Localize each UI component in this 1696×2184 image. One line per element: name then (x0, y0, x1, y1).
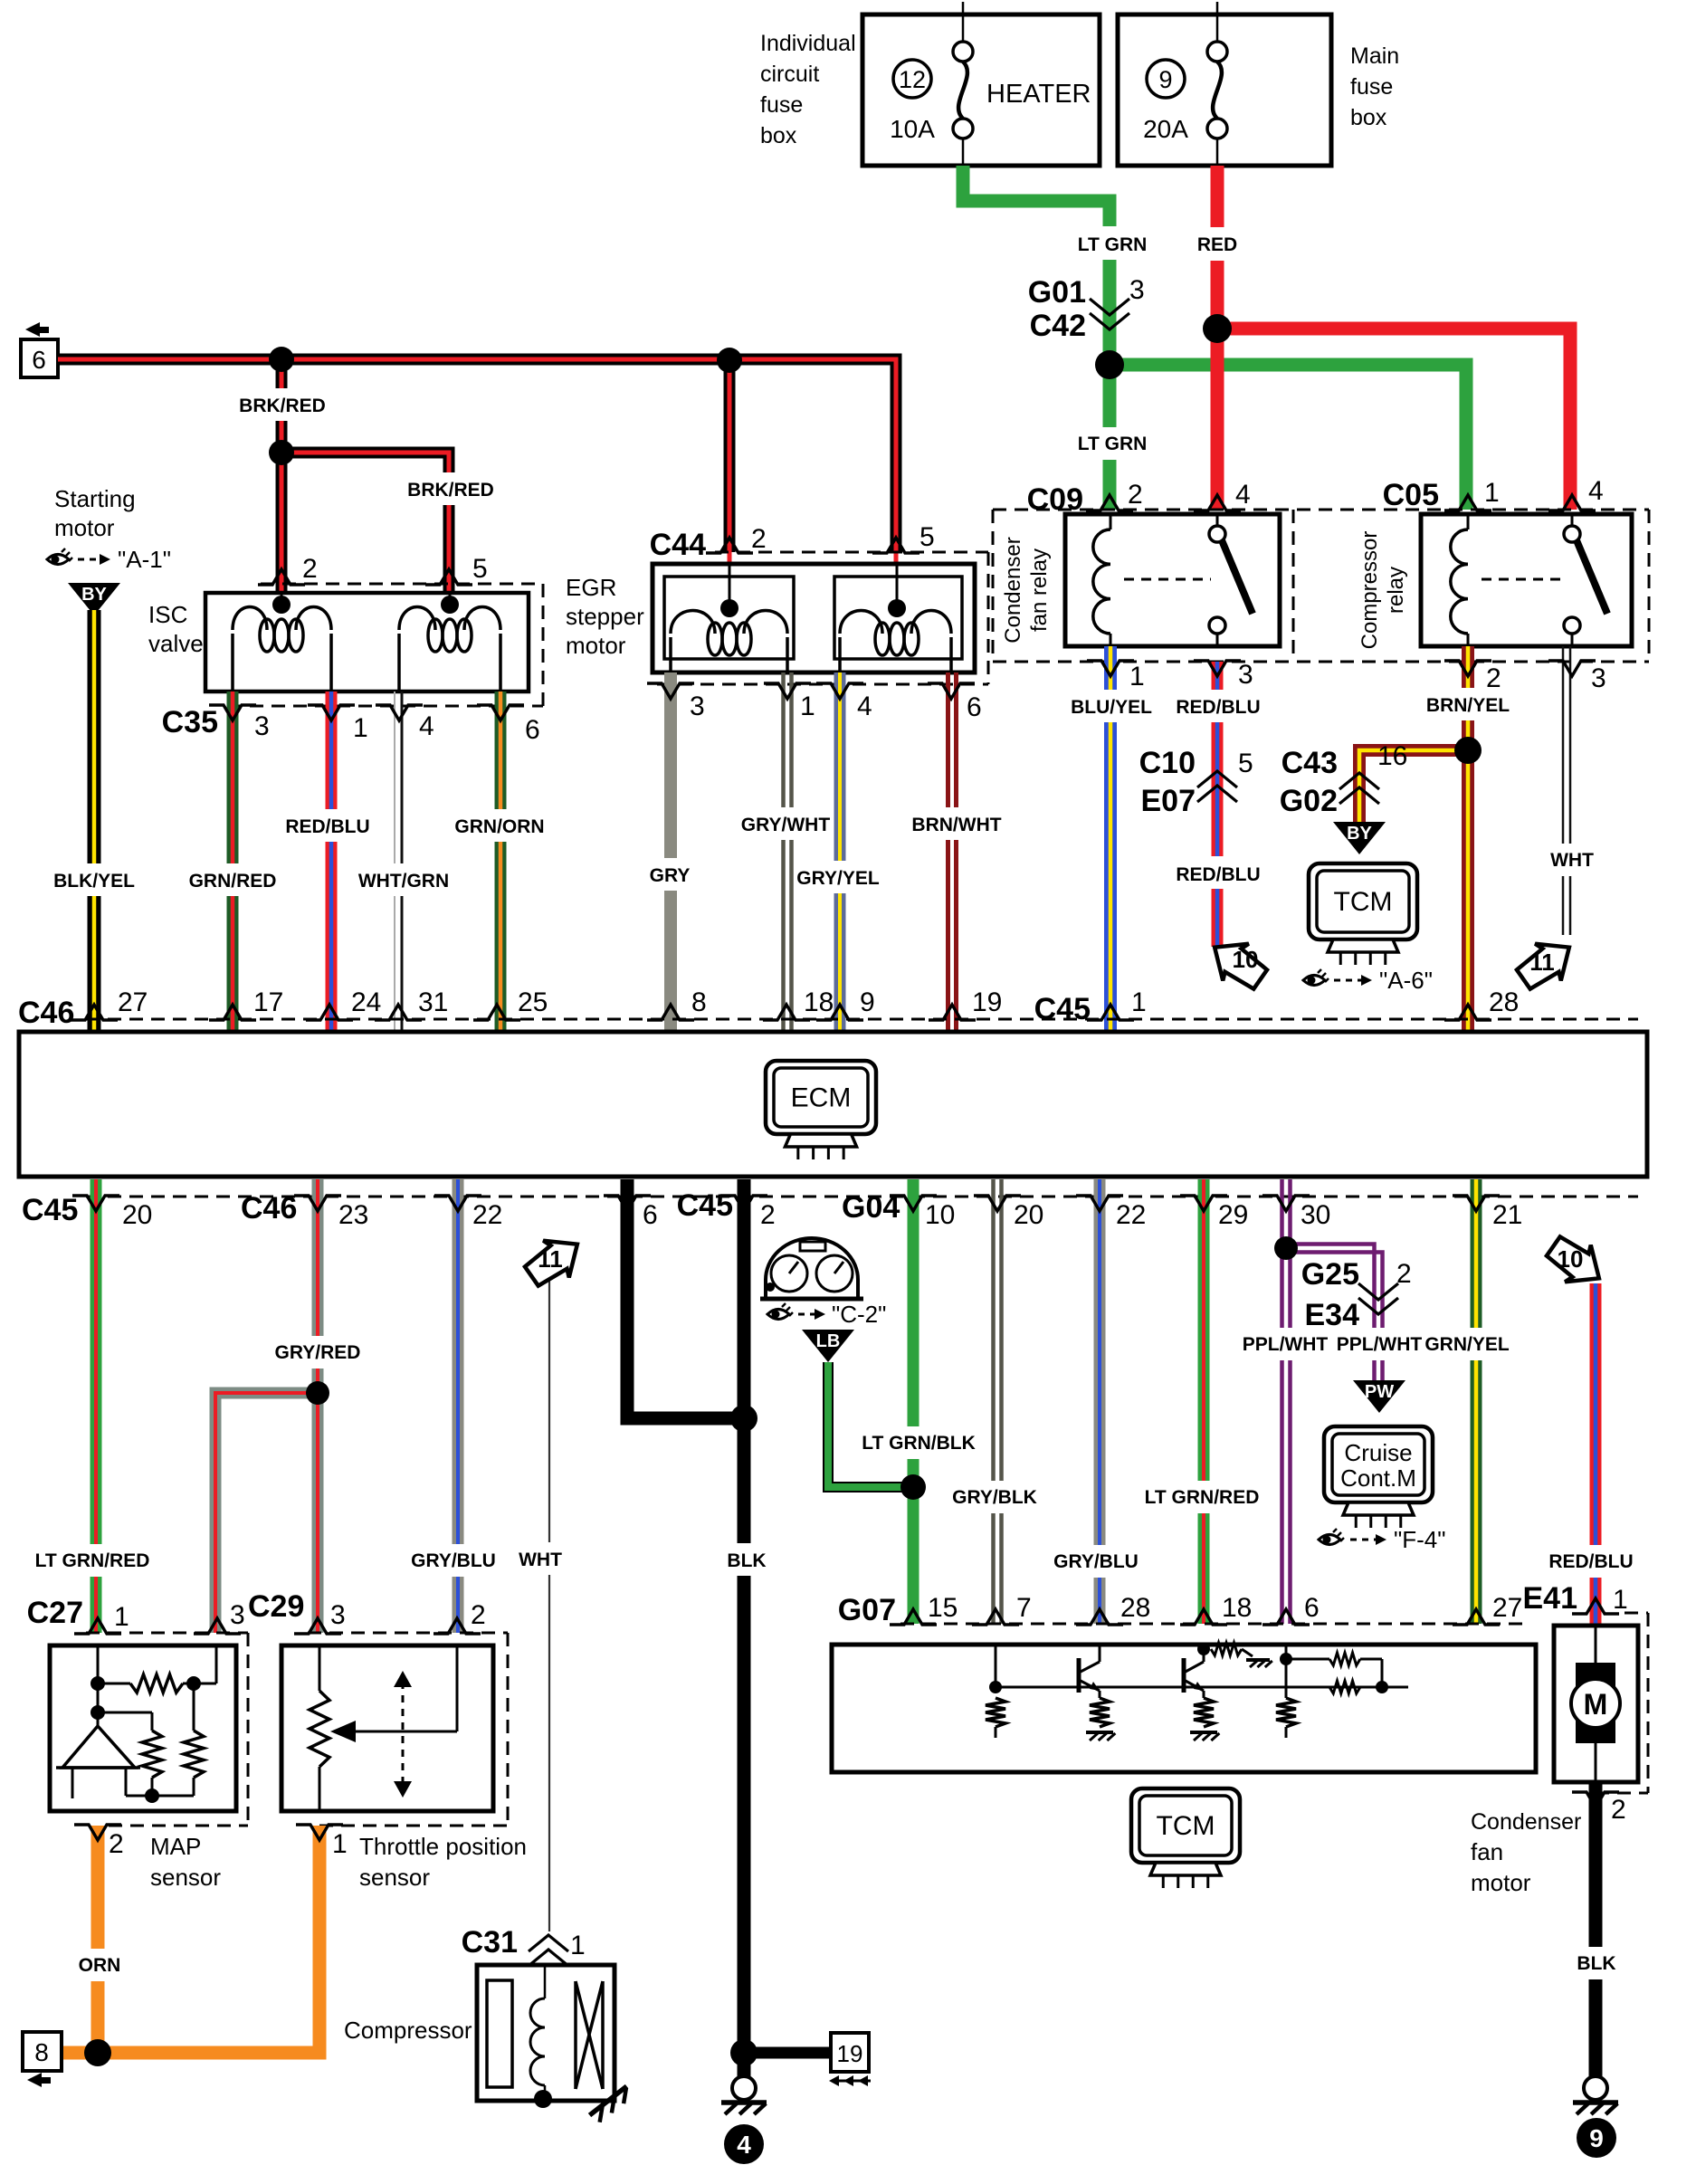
svg-text:box: box (760, 123, 797, 148)
svg-text:GRY/WHT: GRY/WHT (741, 815, 831, 835)
svg-text:17: 17 (253, 987, 283, 1017)
svg-text:9: 9 (860, 987, 875, 1017)
svg-text:E34: E34 (1305, 1298, 1360, 1332)
svg-text:BY: BY (81, 585, 107, 605)
svg-text:G02: G02 (1280, 784, 1338, 818)
svg-text:PPL/WHT: PPL/WHT (1337, 1334, 1423, 1355)
svg-text:4: 4 (1588, 476, 1604, 506)
svg-text:GRY/YEL: GRY/YEL (796, 868, 880, 889)
svg-text:fan: fan (1471, 1838, 1503, 1865)
svg-text:LT GRN/RED: LT GRN/RED (35, 1550, 150, 1571)
svg-text:2: 2 (1611, 1795, 1626, 1825)
svg-text:ISC: ISC (148, 601, 187, 628)
svg-text:12: 12 (899, 66, 926, 93)
svg-text:Cruise: Cruise (1344, 1439, 1412, 1466)
svg-text:C44: C44 (650, 528, 706, 562)
svg-text:GRY: GRY (650, 865, 691, 886)
svg-text:Compressor: Compressor (344, 2017, 472, 2044)
svg-text:1: 1 (1129, 662, 1145, 691)
svg-text:C09: C09 (1027, 482, 1083, 517)
svg-text:PPL/WHT: PPL/WHT (1243, 1334, 1329, 1355)
svg-text:G25: G25 (1301, 1257, 1359, 1292)
svg-text:2: 2 (109, 1829, 124, 1859)
svg-text:motor: motor (1471, 1869, 1531, 1896)
svg-text:motor: motor (566, 632, 626, 659)
svg-text:27: 27 (1492, 1593, 1522, 1623)
svg-text:GRN/ORN: GRN/ORN (454, 816, 544, 837)
svg-text:29: 29 (1218, 1200, 1248, 1230)
svg-text:6: 6 (32, 346, 46, 374)
svg-text:3: 3 (690, 691, 705, 721)
svg-text:G01: G01 (1028, 275, 1086, 310)
svg-text:Cont.M: Cont.M (1340, 1464, 1416, 1492)
svg-text:2: 2 (1128, 480, 1143, 510)
svg-text:BLK/YEL: BLK/YEL (53, 871, 135, 892)
svg-text:RED/BLU: RED/BLU (1548, 1551, 1633, 1572)
svg-text:LT GRN: LT GRN (1078, 234, 1148, 255)
svg-text:5: 5 (1238, 749, 1253, 778)
svg-text:3: 3 (254, 711, 270, 741)
svg-text:28: 28 (1120, 1593, 1150, 1623)
svg-text:4: 4 (857, 691, 872, 721)
svg-text:11: 11 (538, 1245, 563, 1273)
svg-text:C27: C27 (27, 1596, 83, 1630)
svg-text:C46: C46 (241, 1191, 297, 1226)
svg-text:"A-1": "A-1" (118, 546, 171, 573)
svg-text:10: 10 (925, 1200, 955, 1230)
svg-text:20A: 20A (1143, 115, 1188, 143)
svg-text:G07: G07 (838, 1593, 896, 1627)
svg-text:10A: 10A (890, 115, 935, 143)
svg-text:BLK: BLK (727, 1550, 766, 1571)
svg-text:GRY/BLK: GRY/BLK (952, 1487, 1037, 1508)
svg-text:LB: LB (816, 1331, 841, 1351)
svg-text:sensor: sensor (150, 1864, 221, 1891)
svg-text:6: 6 (967, 692, 982, 722)
svg-text:21: 21 (1492, 1200, 1522, 1230)
svg-text:"C-2": "C-2" (832, 1301, 886, 1328)
svg-text:3: 3 (230, 1600, 245, 1630)
svg-text:WHT/GRN: WHT/GRN (358, 871, 449, 892)
svg-text:10: 10 (1233, 946, 1259, 973)
svg-text:stepper: stepper (566, 603, 644, 630)
svg-text:BRK/RED: BRK/RED (407, 480, 494, 501)
svg-text:C43: C43 (1282, 746, 1338, 780)
svg-text:3: 3 (1238, 660, 1253, 690)
svg-text:1: 1 (332, 1829, 348, 1859)
svg-text:PW: PW (1365, 1382, 1394, 1402)
svg-text:circuit: circuit (760, 62, 819, 87)
svg-text:"F-4": "F-4" (1394, 1526, 1445, 1553)
svg-text:WHT: WHT (1550, 850, 1594, 871)
svg-text:4: 4 (419, 711, 434, 741)
svg-text:22: 22 (472, 1200, 502, 1230)
svg-text:GRY/RED: GRY/RED (275, 1342, 361, 1363)
svg-text:Main: Main (1350, 43, 1399, 69)
svg-text:RED/BLU: RED/BLU (285, 816, 369, 837)
svg-text:6: 6 (643, 1200, 658, 1230)
svg-text:9: 9 (1589, 2124, 1604, 2152)
svg-text:10: 10 (1558, 1245, 1584, 1273)
svg-text:2: 2 (1486, 663, 1501, 693)
svg-text:GRN/YEL: GRN/YEL (1424, 1334, 1510, 1355)
svg-text:E41: E41 (1523, 1581, 1578, 1616)
svg-text:BRN/WHT: BRN/WHT (911, 815, 1001, 835)
svg-text:15: 15 (928, 1593, 958, 1623)
svg-text:C46: C46 (18, 996, 74, 1030)
svg-text:valve: valve (148, 630, 204, 657)
svg-text:relay: relay (1384, 567, 1408, 614)
svg-text:LT GRN: LT GRN (1078, 434, 1148, 454)
svg-text:GRY/BLU: GRY/BLU (411, 1550, 496, 1571)
svg-text:3: 3 (1591, 663, 1606, 693)
svg-text:C42: C42 (1030, 309, 1086, 343)
svg-text:2: 2 (302, 554, 318, 584)
svg-text:25: 25 (518, 987, 548, 1017)
svg-text:fan relay: fan relay (1027, 548, 1052, 632)
svg-text:EGR: EGR (566, 574, 616, 601)
svg-text:C05: C05 (1383, 478, 1439, 512)
svg-text:1: 1 (353, 713, 368, 743)
svg-text:Throttle position: Throttle position (359, 1833, 527, 1860)
svg-text:3: 3 (330, 1600, 346, 1630)
svg-text:20: 20 (1014, 1200, 1043, 1230)
svg-text:C35: C35 (162, 705, 218, 739)
svg-text:G04: G04 (842, 1190, 900, 1225)
svg-text:WHT: WHT (519, 1550, 562, 1570)
svg-text:C45: C45 (22, 1193, 78, 1227)
svg-text:18: 18 (1222, 1593, 1252, 1623)
svg-text:2: 2 (760, 1200, 776, 1230)
svg-text:HEATER: HEATER (986, 80, 1091, 109)
svg-text:"A-6": "A-6" (1379, 967, 1433, 994)
svg-text:6: 6 (525, 715, 540, 745)
svg-text:BLK: BLK (1577, 1953, 1615, 1974)
svg-text:5: 5 (472, 554, 488, 584)
svg-text:1: 1 (1131, 987, 1147, 1017)
svg-text:4: 4 (737, 2131, 751, 2159)
svg-text:C10: C10 (1139, 746, 1196, 780)
svg-text:Condenser: Condenser (1471, 1809, 1581, 1835)
svg-text:1: 1 (570, 1931, 586, 1960)
svg-text:2: 2 (1396, 1259, 1412, 1289)
svg-text:C31: C31 (462, 1925, 518, 1960)
svg-text:8: 8 (34, 2038, 49, 2066)
svg-text:5: 5 (919, 522, 935, 552)
svg-text:GRY/BLU: GRY/BLU (1053, 1551, 1139, 1572)
svg-text:BY: BY (1347, 824, 1372, 844)
svg-text:BRN/YEL: BRN/YEL (1426, 695, 1510, 716)
svg-text:3: 3 (1129, 275, 1145, 305)
svg-text:23: 23 (338, 1200, 368, 1230)
svg-text:2: 2 (751, 524, 767, 554)
svg-text:30: 30 (1301, 1200, 1330, 1230)
svg-text:28: 28 (1489, 987, 1519, 1017)
svg-text:11: 11 (1529, 949, 1555, 976)
svg-text:ECM: ECM (791, 1083, 852, 1113)
svg-text:1: 1 (1613, 1585, 1628, 1615)
svg-text:2: 2 (471, 1600, 486, 1630)
svg-text:16: 16 (1377, 741, 1407, 771)
svg-text:9: 9 (1158, 66, 1172, 93)
svg-text:C45: C45 (677, 1188, 733, 1223)
svg-text:fuse: fuse (760, 92, 803, 118)
svg-text:GRN/RED: GRN/RED (189, 871, 277, 892)
svg-text:24: 24 (351, 987, 381, 1017)
svg-text:1: 1 (800, 691, 815, 721)
svg-text:1: 1 (1484, 478, 1500, 508)
svg-text:Individual: Individual (760, 31, 856, 56)
svg-text:31: 31 (418, 987, 448, 1017)
svg-text:C45: C45 (1034, 992, 1091, 1026)
svg-text:TCM: TCM (1157, 1811, 1215, 1841)
svg-text:TCM: TCM (1334, 887, 1393, 917)
svg-text:7: 7 (1016, 1593, 1032, 1623)
svg-text:Condenser: Condenser (1001, 537, 1025, 643)
svg-text:RED: RED (1197, 234, 1237, 255)
svg-text:RED/BLU: RED/BLU (1176, 697, 1260, 718)
svg-text:LT GRN/BLK: LT GRN/BLK (862, 1433, 976, 1454)
svg-text:LT GRN/RED: LT GRN/RED (1145, 1487, 1260, 1508)
svg-text:BRK/RED: BRK/RED (239, 396, 326, 416)
svg-text:27: 27 (118, 987, 148, 1017)
svg-text:6: 6 (1304, 1593, 1320, 1623)
svg-text:fuse: fuse (1350, 74, 1393, 100)
svg-text:18: 18 (804, 987, 834, 1017)
svg-text:19: 19 (837, 2040, 863, 2067)
svg-text:Compressor: Compressor (1358, 531, 1382, 650)
svg-text:RED/BLU: RED/BLU (1176, 864, 1260, 885)
svg-text:1: 1 (114, 1602, 129, 1632)
svg-text:19: 19 (972, 987, 1002, 1017)
svg-text:M: M (1584, 1688, 1608, 1721)
svg-text:4: 4 (1235, 480, 1251, 510)
svg-text:MAP: MAP (150, 1833, 201, 1860)
svg-text:BLU/YEL: BLU/YEL (1071, 697, 1152, 718)
svg-text:22: 22 (1116, 1200, 1146, 1230)
svg-text:Starting: Starting (54, 485, 136, 512)
svg-text:sensor: sensor (359, 1864, 430, 1891)
svg-text:C29: C29 (248, 1589, 304, 1624)
svg-text:motor: motor (54, 514, 115, 541)
svg-text:ORN: ORN (79, 1955, 121, 1976)
svg-text:E07: E07 (1141, 784, 1196, 818)
svg-text:8: 8 (691, 987, 707, 1017)
svg-text:box: box (1350, 105, 1387, 130)
svg-text:20: 20 (122, 1200, 152, 1230)
